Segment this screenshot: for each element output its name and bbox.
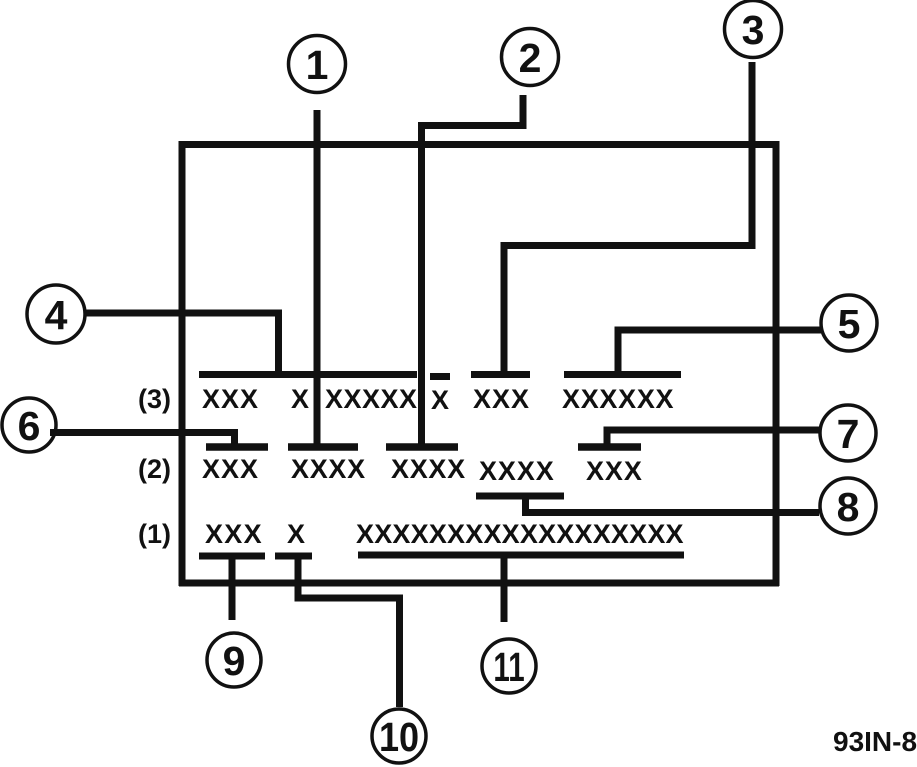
svg-text:X: X — [431, 385, 450, 415]
svg-text:X: X — [287, 519, 306, 549]
svg-text:11: 11 — [493, 644, 524, 690]
leader 6 horizontal — [50, 429, 238, 436]
svg-text:XXXXXXXXXXXXXXXXXX: XXXXXXXXXXXXXXXXXX — [356, 519, 684, 549]
svg-text:9: 9 — [223, 638, 246, 684]
row1 underline group1 — [199, 553, 265, 560]
callout circle 3 — [725, 1, 782, 58]
row1 underline group3 — [358, 552, 684, 559]
leader 10 vertical from row — [295, 556, 302, 602]
plate outline left edge — [179, 141, 186, 586]
leader 8 horizontal — [522, 509, 819, 516]
svg-text:7: 7 — [837, 411, 860, 457]
callout circle 5 — [821, 295, 877, 351]
leader 8 vertical step — [522, 496, 529, 516]
callout circle 6 — [2, 398, 56, 452]
row3 bar over group1 — [199, 371, 316, 378]
leader 10 vertical to circle — [396, 595, 403, 708]
leader 5 vertical — [615, 327, 622, 379]
leader 2 horizontal — [418, 122, 527, 129]
row2 bar under group4 — [476, 493, 564, 500]
callout circle 10 — [372, 709, 426, 763]
svg-text:XXX: XXX — [202, 454, 259, 484]
leader 11 vertical — [501, 553, 508, 622]
leader 7 horizontal — [604, 427, 820, 434]
plate outline bottom edge — [179, 580, 779, 587]
callout circle 11 — [482, 639, 536, 693]
leader 3 vertical — [501, 242, 508, 378]
row3 bar over group3 — [471, 371, 530, 378]
leader 3 drop from circle — [749, 62, 756, 249]
svg-text:3: 3 — [742, 7, 765, 53]
leader 2 vertical — [418, 122, 425, 449]
leader 6 vertical — [231, 429, 238, 450]
leader 4 horizontal — [86, 310, 282, 317]
callout circle 2 — [502, 29, 559, 86]
svg-text:93IN-8: 93IN-8 — [833, 726, 917, 757]
leader 1 vertical — [314, 110, 321, 450]
svg-text:XXX: XXX — [205, 519, 263, 549]
svg-text:2: 2 — [519, 35, 542, 81]
svg-text:1: 1 — [306, 42, 329, 88]
row1 underline group2 — [275, 553, 312, 560]
row3 bar over group4 — [564, 371, 681, 378]
callout circle 8 — [820, 478, 876, 534]
svg-text:XXXXXX: XXXXXX — [562, 384, 674, 414]
svg-text:8: 8 — [837, 484, 860, 530]
leader 2 drop from circle — [520, 95, 527, 129]
row2 bar over group5 — [578, 443, 641, 451]
svg-text:(1): (1) — [138, 519, 171, 549]
plate outline top edge — [179, 141, 779, 148]
callout circle 1 — [289, 36, 346, 93]
row3 bar over group2 — [318, 371, 417, 378]
callout circle 4 — [27, 285, 85, 343]
svg-text:XXXX: XXXX — [391, 454, 466, 484]
svg-text:(2): (2) — [138, 454, 171, 484]
svg-text:6: 6 — [18, 403, 41, 449]
leader 5 horizontal — [615, 327, 822, 334]
svg-text:XXXXX: XXXXX — [325, 384, 418, 414]
row2 bar over group3 — [386, 443, 458, 451]
row2 bar over group1 — [206, 443, 268, 451]
svg-text:XXX: XXX — [473, 384, 530, 414]
row2 bar over group2 — [288, 443, 358, 451]
svg-text:(3): (3) — [138, 384, 171, 414]
svg-text:X: X — [291, 384, 310, 414]
leader 4 vertical — [275, 310, 282, 379]
svg-text:XXX: XXX — [586, 456, 643, 486]
svg-text:XXXX: XXXX — [291, 454, 366, 484]
leader 3 horizontal — [501, 242, 756, 249]
leader 7 vertical — [604, 427, 611, 451]
svg-text:XXXX: XXXX — [479, 456, 555, 486]
plate outline right edge — [773, 141, 780, 586]
svg-text:XXX: XXX — [202, 384, 259, 414]
callout circle 7 — [820, 405, 876, 461]
leader 9 vertical — [229, 556, 236, 620]
callout circle 9 — [207, 633, 261, 687]
svg-text:4: 4 — [45, 292, 68, 338]
leader 10 horizontal — [295, 595, 404, 602]
svg-text:5: 5 — [838, 301, 861, 347]
row3 short dash — [430, 373, 450, 380]
svg-text:10: 10 — [379, 715, 419, 761]
